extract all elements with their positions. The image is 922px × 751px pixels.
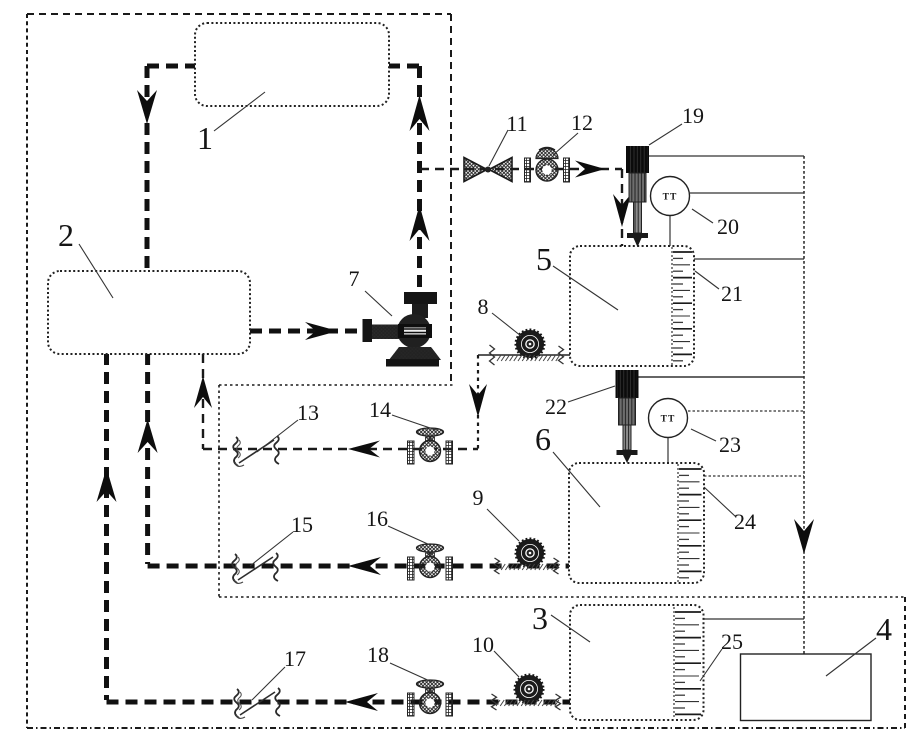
- scale 21 on tank5: [671, 247, 673, 365]
- label 5: [553, 266, 618, 310]
- label 11: [489, 130, 508, 166]
- temperature transmitter 20: [651, 177, 690, 216]
- label 18: [390, 663, 432, 682]
- label 19: [649, 124, 682, 145]
- wire tank2 bottom left riser to row17: [104, 353, 109, 700]
- label 7: [365, 291, 392, 316]
- svg-text:20: 20: [717, 214, 739, 239]
- svg-text:4: 4: [876, 611, 892, 647]
- label 8: [492, 313, 521, 336]
- box 1 condenser: [195, 23, 389, 106]
- label 12: [553, 133, 578, 155]
- svg-text:25: 25: [721, 629, 743, 654]
- signal bus right: [803, 156, 805, 654]
- svg-text:2: 2: [58, 217, 74, 253]
- label 6: [553, 452, 600, 507]
- tank 3: [570, 605, 704, 720]
- svg-text:23: 23: [719, 432, 741, 457]
- tank 6: [569, 463, 704, 583]
- valve 13: [233, 437, 238, 466]
- boundary zone B bottom: [219, 596, 905, 598]
- wire TT23 sensor drop: [667, 438, 669, 463]
- svg-text:12: 12: [571, 110, 593, 135]
- nozzle 19 atomizer: [626, 146, 649, 173]
- valve 16: [408, 557, 415, 580]
- svg-text:16: 16: [366, 506, 388, 531]
- label 9: [487, 509, 519, 541]
- nozzle 22 atomizer: [616, 370, 639, 398]
- svg-text:7: 7: [349, 266, 360, 291]
- wire row15 valve line: [148, 564, 569, 569]
- pump 7: [363, 292, 442, 367]
- label 14: [392, 415, 436, 430]
- signal line scale25: [704, 618, 804, 620]
- wire elbow down into tank2 top: [145, 66, 150, 271]
- svg-text:10: 10: [472, 632, 494, 657]
- label 3: [551, 615, 590, 642]
- wire row17 valve line: [107, 700, 571, 705]
- valve 15: [232, 554, 237, 583]
- svg-text:TT: TT: [663, 193, 678, 203]
- label 23: [691, 429, 716, 441]
- signal line scale24: [704, 475, 804, 477]
- label 22: [568, 386, 615, 402]
- flow meter 12: [525, 148, 570, 183]
- boundary zone C bottom: [27, 727, 905, 729]
- wire tank2 bottom thin riser to row13: [202, 354, 204, 449]
- svg-text:15: 15: [291, 512, 313, 537]
- svg-text:5: 5: [536, 241, 552, 277]
- label 15: [250, 532, 293, 566]
- label 16: [388, 526, 430, 545]
- wire pump7 discharge riser: [417, 66, 422, 292]
- label 1: [214, 92, 265, 131]
- boundary zone C right edge: [904, 597, 906, 728]
- svg-text:13: 13: [297, 400, 319, 425]
- pump 10: [518, 678, 541, 701]
- valve 11: [464, 158, 512, 182]
- svg-text:8: 8: [478, 294, 489, 319]
- svg-text:17: 17: [284, 646, 306, 671]
- pump 8: [519, 333, 542, 356]
- box 2 evaporator tank: [48, 271, 250, 354]
- signal line TT23: [688, 410, 804, 412]
- wire box1-right to elbow: [388, 64, 420, 69]
- svg-text:1: 1: [197, 120, 213, 156]
- wire row13 valve line: [203, 448, 478, 450]
- svg-text:22: 22: [545, 394, 567, 419]
- valve 14: [408, 441, 415, 464]
- svg-text:11: 11: [506, 111, 527, 136]
- pump 9: [519, 542, 542, 565]
- signal line TT20: [690, 192, 804, 194]
- wire pump8 branch drop: [477, 355, 479, 449]
- wire TT20 sensor drop: [669, 215, 671, 246]
- boundary zone B top: [219, 384, 453, 386]
- svg-text:TT: TT: [661, 415, 676, 425]
- valve 18: [408, 693, 415, 716]
- label 25: [700, 649, 722, 681]
- signal line scale21: [694, 258, 804, 260]
- box 4 data collector: [741, 654, 872, 721]
- wire box1-left to elbow: [147, 64, 195, 69]
- wire tank2 bottom mid riser to row15: [145, 353, 150, 564]
- boundary left edge: [26, 14, 28, 728]
- wire tank2 to pump7 suction: [250, 329, 363, 334]
- signal line nozzle22: [638, 376, 804, 378]
- svg-text:3: 3: [532, 600, 548, 636]
- valve 17: [234, 689, 239, 718]
- wire drop into tank5: [621, 169, 623, 246]
- svg-text:24: 24: [734, 509, 756, 534]
- signal line nozzle19: [649, 155, 804, 157]
- label 24: [704, 487, 736, 517]
- label 4: [826, 638, 876, 676]
- label 21: [695, 271, 719, 289]
- tank 5: [570, 246, 694, 366]
- svg-text:19: 19: [682, 103, 704, 128]
- svg-text:14: 14: [369, 397, 391, 422]
- scale 24 on tank6: [677, 464, 679, 582]
- wire valve11 feed line: [420, 168, 622, 170]
- svg-text:9: 9: [473, 485, 484, 510]
- boundary zone A top: [27, 13, 451, 15]
- temperature transmitter 23: [649, 399, 688, 438]
- scale 25 on tank3: [673, 607, 675, 719]
- label 2: [79, 244, 113, 298]
- label 20: [692, 209, 713, 223]
- label 17: [252, 667, 285, 700]
- boundary zone B left edge: [218, 385, 220, 597]
- svg-text:6: 6: [535, 421, 551, 457]
- wire pump8 to tank5: [478, 354, 570, 356]
- svg-text:21: 21: [721, 281, 743, 306]
- label 10: [494, 651, 519, 677]
- svg-text:18: 18: [367, 642, 389, 667]
- label 13: [257, 420, 298, 452]
- boundary zone A right edge: [450, 14, 452, 385]
